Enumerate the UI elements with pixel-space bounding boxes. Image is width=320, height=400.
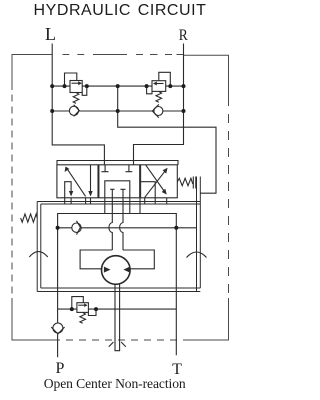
svg-text:L: L [45,24,56,44]
svg-text:Open Center Non-reaction: Open Center Non-reaction [44,376,186,391]
svg-text:R: R [179,27,188,44]
svg-text:HYDRAULIC CIRCUIT: HYDRAULIC CIRCUIT [34,2,207,19]
svg-text:P: P [56,360,65,377]
